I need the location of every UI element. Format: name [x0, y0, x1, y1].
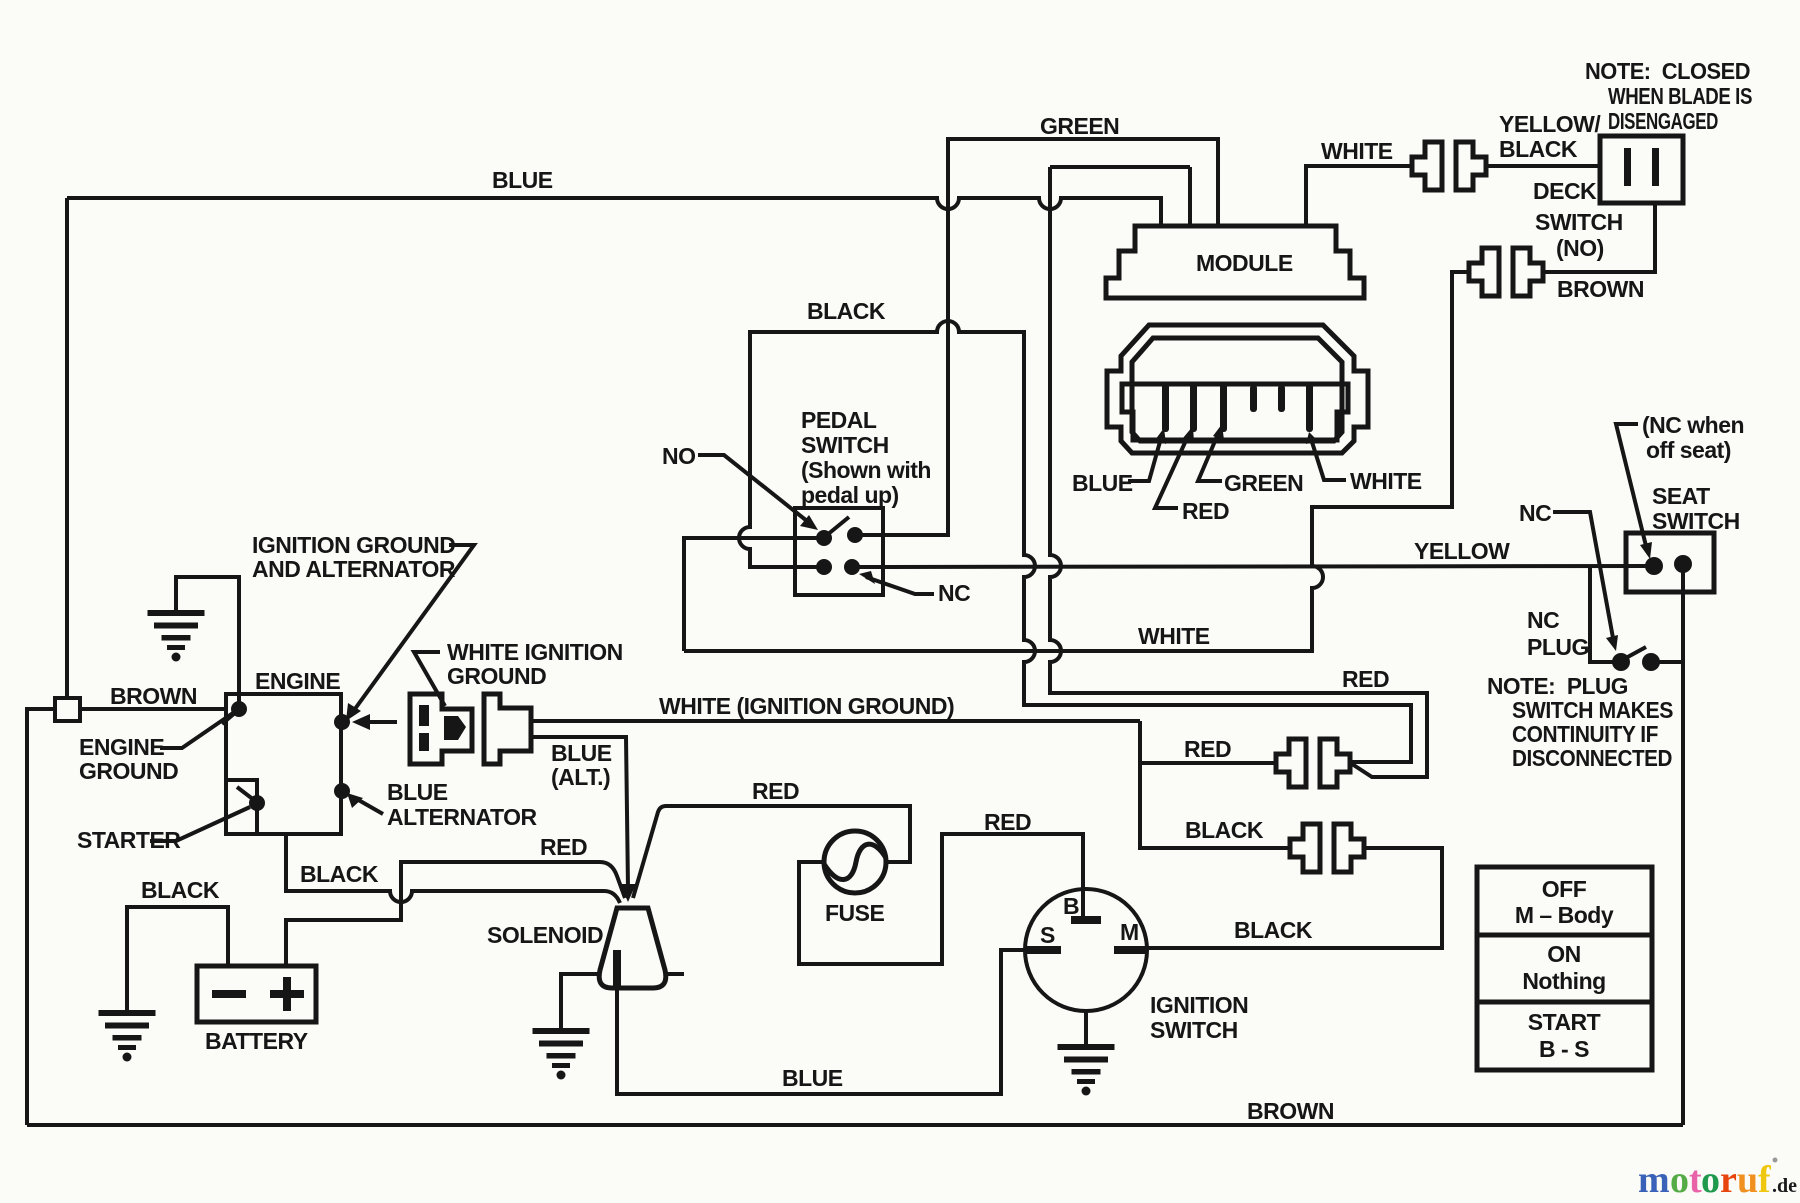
wire WHITE module to connector pair P1 — [1306, 166, 1411, 228]
leader WHITE IGNITION GROUND to connector — [414, 652, 445, 706]
svg-text:BLUE: BLUE — [387, 779, 448, 805]
svg-text:IGNITION GROUND: IGNITION GROUND — [252, 532, 455, 558]
wire BLUE top border: from left border top right across to module, hops over two verticals — [67, 198, 1161, 228]
wire BLUE solenoid to ignition S — [617, 950, 1029, 1094]
svg-text:B: B — [1063, 893, 1079, 919]
wire left border vertical (blue) — [65, 198, 69, 700]
svg-text:(ALT.): (ALT.) — [551, 764, 610, 790]
svg-text:SEAT: SEAT — [1652, 483, 1710, 509]
svg-text:DISENGAGED: DISENGAGED — [1608, 108, 1718, 134]
svg-text:S: S — [1040, 922, 1055, 948]
svg-text:o: o — [1701, 1159, 1720, 1201]
svg-text:ALTERNATOR: ALTERNATOR — [387, 804, 537, 830]
solenoid plunger — [613, 950, 621, 986]
ground (battery) — [99, 1010, 156, 1062]
battery plus — [270, 990, 304, 998]
svg-text:CONTINUITY IF: CONTINUITY IF — [1512, 721, 1658, 747]
svg-text:NC: NC — [1527, 607, 1559, 633]
svg-text:(NC when: (NC when — [1642, 412, 1744, 438]
pin 3 (green) — [1220, 383, 1227, 432]
leader BLUE pin — [1128, 438, 1161, 481]
connector small square on left border — [55, 698, 80, 721]
table OFF/ON/START — [1477, 867, 1652, 1070]
svg-text:BROWN: BROWN — [1557, 276, 1644, 302]
leader NO with arrow — [698, 455, 812, 525]
svg-text:RED: RED — [540, 834, 587, 860]
svg-text:M: M — [1120, 919, 1139, 945]
leader GREEN pin — [1198, 434, 1222, 481]
ignition M terminal — [1114, 946, 1147, 954]
battery minus — [212, 990, 246, 998]
leader IGNITION GROUND AND ALTERNATOR to engine dot — [352, 545, 474, 713]
svg-text:SWITCH: SWITCH — [801, 432, 889, 458]
wire ignition ground stem — [1084, 1011, 1088, 1046]
wire deck switch bottom to P2 — [1544, 203, 1655, 272]
leader WHITE pin — [1312, 442, 1346, 480]
svg-text:BROWN: BROWN — [110, 683, 197, 709]
node engine ground dot — [231, 701, 247, 717]
wire fuse left loop to ignition B — [799, 834, 1083, 964]
NC plug lever — [1624, 647, 1646, 659]
svg-text:IGNITION: IGNITION — [1150, 992, 1248, 1018]
starter box — [226, 780, 257, 834]
wire seat right dot down right border handled in border; junction NC plug — [1681, 564, 1685, 1125]
pedal switch lever — [827, 517, 849, 535]
big connector pin block — [1122, 384, 1348, 440]
svg-text:BLACK: BLACK — [141, 877, 220, 903]
svg-text:M – Body: M – Body — [1515, 902, 1614, 928]
svg-text:BLACK: BLACK — [1499, 136, 1578, 162]
svg-text:DECK: DECK — [1533, 178, 1597, 204]
svg-text:pedal up): pedal up) — [801, 482, 899, 508]
svg-text:BLUE: BLUE — [551, 740, 612, 766]
svg-text:OFF: OFF — [1542, 876, 1587, 902]
svg-text:WHITE: WHITE — [1321, 138, 1393, 164]
leader STARTER to dot — [150, 807, 250, 841]
ground (ignition) — [1058, 1044, 1115, 1096]
pin 1 (blue) — [1162, 383, 1169, 432]
svg-text:MODULE: MODULE — [1196, 250, 1293, 276]
leader NC to plug with arrow — [1553, 512, 1613, 638]
fuse S-curve — [824, 844, 886, 879]
fuse circle — [824, 831, 886, 893]
white ignition ground connector left half — [410, 694, 472, 764]
leader BLUE ALTERNATOR to dot — [355, 798, 383, 814]
svg-text:B - S: B - S — [1539, 1036, 1589, 1062]
battery box — [197, 966, 316, 1022]
white ignition ground connector right half — [484, 694, 531, 764]
leader RED pin — [1155, 436, 1188, 508]
wire BLACK P4 right stem to M terminal — [1147, 848, 1442, 948]
engine ground loop wire — [176, 577, 239, 710]
svg-text:NO: NO — [662, 443, 696, 469]
pin 6 (white) — [1306, 383, 1313, 432]
svg-text:FUSE: FUSE — [825, 900, 885, 926]
pin 4 — [1250, 385, 1257, 412]
svg-text:SWITCH: SWITCH — [1535, 209, 1623, 235]
wire NC plug right dot to border — [1651, 660, 1683, 664]
svg-text:NOTE: CLOSED: NOTE: CLOSED — [1585, 58, 1750, 84]
engine box — [226, 694, 341, 834]
wire pedal NO contact from left riser — [684, 538, 824, 651]
tick starter lever — [237, 787, 254, 800]
deck switch slot 1 — [1624, 148, 1631, 186]
svg-text:WHITE IGNITION: WHITE IGNITION — [447, 639, 623, 665]
ground (solenoid) — [533, 1028, 590, 1080]
svg-text:WHITE: WHITE — [1350, 468, 1422, 494]
wire pedal top-right dot up to green — [855, 533, 948, 537]
svg-text:f: f — [1758, 1159, 1772, 1201]
svg-text:BLACK: BLACK — [807, 298, 886, 324]
svg-text:START: START — [1528, 1009, 1601, 1035]
svg-text:BLUE: BLUE — [782, 1065, 843, 1091]
connector left half pins — [419, 705, 429, 726]
pin 5 — [1278, 385, 1285, 412]
svg-text:RED: RED — [752, 778, 799, 804]
connector pair P2 (brown) — [1469, 248, 1543, 296]
wire module feed v1190 — [1188, 167, 1192, 228]
module outline — [1106, 226, 1364, 298]
svg-text:GREEN: GREEN — [1224, 470, 1303, 496]
svg-text:RED: RED — [1182, 498, 1229, 524]
svg-text:NC: NC — [1519, 500, 1551, 526]
arrow pointing at white ignition dot — [366, 720, 397, 724]
svg-text:YELLOW: YELLOW — [1414, 538, 1510, 564]
svg-text:SWITCH MAKES: SWITCH MAKES — [1512, 697, 1673, 723]
svg-text:BLACK: BLACK — [1234, 917, 1313, 943]
svg-text:WHEN BLADE IS: WHEN BLADE IS — [1608, 83, 1752, 109]
svg-text:o: o — [1670, 1159, 1689, 1201]
svg-text:BLACK: BLACK — [1185, 817, 1264, 843]
ignition S terminal — [1027, 946, 1061, 954]
connector pair P4 (black) — [1290, 824, 1364, 872]
svg-text:off seat): off seat) — [1646, 437, 1731, 463]
svg-text:NOTE: PLUG: NOTE: PLUG — [1487, 673, 1628, 699]
wire P1 right stem to deck switch — [1486, 164, 1600, 168]
big connector outer shell — [1107, 325, 1368, 453]
wire BLACK battery- to ground — [127, 907, 228, 1012]
NC plug dots — [1612, 653, 1630, 671]
svg-text:m: m — [1638, 1159, 1670, 1201]
wire BROWN bottom border — [27, 1123, 1683, 1127]
wire BLACK engine to solenoid with sag bump — [286, 834, 620, 903]
leader NC with arrow — [866, 577, 934, 594]
wire BLACK loop around pedal switch (top edge hops over v948) — [739, 321, 1411, 762]
solenoid left stub to ground — [561, 974, 599, 1030]
wire white ignition ground horizontal into v1140 — [531, 719, 1140, 723]
svg-text:RED: RED — [1342, 666, 1389, 692]
svg-text:ON: ON — [1547, 941, 1581, 967]
svg-text:BLUE: BLUE — [492, 167, 553, 193]
svg-text:BLUE: BLUE — [1072, 470, 1133, 496]
wire RED battery+ to solenoid — [286, 862, 625, 966]
wire NC plug branch from yellow — [1590, 566, 1614, 662]
svg-text:u: u — [1737, 1159, 1758, 1201]
wire RED stub to P3 — [1140, 761, 1276, 765]
svg-text:YELLOW/: YELLOW/ — [1499, 111, 1601, 137]
ignition switch circle — [1025, 889, 1147, 1011]
big connector inner shell — [1132, 338, 1342, 441]
svg-text:BATTERY: BATTERY — [205, 1028, 308, 1054]
svg-text:BLACK: BLACK — [300, 861, 379, 887]
svg-text:SOLENOID: SOLENOID — [487, 922, 603, 948]
svg-text:GROUND: GROUND — [447, 663, 546, 689]
svg-text:GREEN: GREEN — [1040, 113, 1119, 139]
wire P2 left stem to white riser — [1452, 270, 1468, 274]
leader ENGINE GROUND — [160, 713, 233, 748]
wire RED upper: v1050 from y167 down with hops over yellow+white, then right and down to red connector — [1050, 167, 1427, 777]
leader (NC when off seat) to seat dot — [1616, 424, 1646, 546]
wire GREEN top — [948, 139, 1218, 537]
wire YELLOW from pedal to seat switch — [852, 566, 1654, 567]
svg-text:AND ALTERNATOR: AND ALTERNATOR — [252, 556, 456, 582]
pin 2 (red) — [1190, 383, 1197, 432]
svg-text:BROWN: BROWN — [1247, 1098, 1334, 1124]
seat switch dots — [1645, 557, 1663, 575]
wire RED mid-right: stub from v1140 to red connector pair P3 — [1140, 721, 1290, 848]
svg-text:SWITCH: SWITCH — [1150, 1017, 1238, 1043]
svg-text:WHITE: WHITE — [1138, 623, 1210, 649]
deck switch box — [1600, 136, 1683, 203]
pedal switch contact dots — [816, 530, 832, 546]
wire BROWN square to engine — [80, 707, 228, 711]
pedal switch box — [795, 508, 883, 595]
wire WHITE from pedal NO riser to seat area: right, up, right, up to brown connector — [684, 272, 1468, 651]
wire from square left down to bottom left corner — [27, 709, 55, 1125]
connector pair P3 (red) — [1276, 739, 1350, 787]
svg-text:Nothing: Nothing — [1522, 968, 1605, 994]
svg-text:(Shown with: (Shown with — [801, 457, 931, 483]
node white ignition dot on engine — [334, 714, 350, 730]
svg-text:GROUND: GROUND — [79, 758, 178, 784]
svg-text:r: r — [1720, 1159, 1737, 1201]
deck switch slot 2 — [1652, 148, 1659, 186]
svg-text:PEDAL: PEDAL — [801, 407, 877, 433]
solenoid body — [599, 908, 666, 988]
svg-text:.de: .de — [1772, 1175, 1797, 1197]
svg-text:RED: RED — [984, 809, 1031, 835]
node blue alternator dot on engine — [334, 783, 350, 799]
ground (engine top-left) — [148, 610, 205, 662]
svg-text:PLUG: PLUG — [1527, 634, 1589, 660]
svg-text:NC: NC — [938, 580, 970, 606]
svg-text:ENGINE: ENGINE — [255, 668, 340, 694]
node starter dot — [249, 795, 265, 811]
solenoid right stub — [666, 972, 684, 976]
svg-text:SWITCH: SWITCH — [1652, 508, 1740, 534]
connector pair P1 (white to deck switch) — [1412, 142, 1486, 190]
tick engine ground — [222, 712, 236, 724]
wire horizontal y167 to module — [1050, 165, 1190, 169]
logo motoruf.de — [1638, 1158, 1797, 1202]
svg-text:WHITE (IGNITION GROUND): WHITE (IGNITION GROUND) — [659, 693, 954, 719]
svg-text:ENGINE: ENGINE — [79, 734, 164, 760]
ignition B terminal — [1071, 916, 1101, 924]
svg-text:(NO): (NO) — [1556, 235, 1604, 261]
svg-text:DISCONNECTED: DISCONNECTED — [1512, 745, 1672, 771]
wire BLUE (ALT.) from connector down to solenoid with arrow — [531, 737, 628, 888]
svg-text:RED: RED — [1184, 736, 1231, 762]
wire RED solenoid to fuse — [633, 806, 910, 898]
seat switch box — [1626, 533, 1714, 592]
